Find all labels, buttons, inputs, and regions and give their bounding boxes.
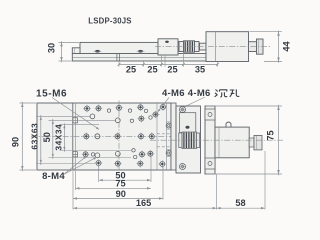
leader 15-M6 [52, 98, 99, 130]
leader 4-M6 [158, 98, 169, 112]
drive axis centerline (plan) [150, 139, 283, 141]
motor body (plan) [215, 127, 249, 158]
coupling plan left ring [179, 133, 182, 148]
dim 75 right [207, 105, 283, 107]
bottom dim 90 [72, 171, 74, 210]
table side screw 2 [138, 50, 143, 53]
holes row 4 [83, 152, 88, 157]
hidden leadscrew lines [157, 133, 181, 135]
bottom dim 58 [264, 151, 266, 210]
svg-text:34X34: 34X34 [54, 124, 64, 151]
svg-text:35: 35 [195, 64, 205, 74]
bracket screw bottom [180, 164, 186, 170]
satellite holes row 1 [107, 109, 110, 112]
motor connector cap (plan) [254, 135, 262, 150]
base internal step line [72, 57, 206, 59]
svg-text:90: 90 [11, 137, 21, 147]
end block screw [165, 41, 169, 43]
table side screw 1 [95, 50, 100, 53]
CJK chen (sink) glyph [215, 90, 228, 97]
coupling plan right ring [197, 133, 200, 148]
bottom dim 165 [216, 175, 218, 210]
svg-text:90: 90 [116, 189, 126, 199]
motor connector neck (plan) [249, 138, 254, 147]
table right seam lines [156, 103, 158, 170]
left edge side-tap marks [73, 118, 78, 123]
base joint tick a [116, 54, 118, 61]
leader 8-M4 a [64, 158, 97, 175]
plan view main plate [37, 103, 171, 170]
motor connector neck [249, 42, 257, 52]
bracket pocket [180, 113, 196, 133]
svg-text:63X63: 63X63 [29, 123, 39, 150]
CJK kong (hole) glyph [230, 89, 240, 97]
svg-text:75: 75 [266, 130, 276, 140]
svg-text:25: 25 [126, 64, 136, 74]
coupling left ring [179, 42, 184, 52]
coupling right ring [195, 42, 200, 52]
motor flange line [215, 32, 217, 62]
svg-text:25: 25 [147, 64, 157, 74]
svg-text:15-M6: 15-M6 [36, 89, 67, 100]
holes row 5 [96, 161, 101, 166]
M6 holes row 1 [85, 106, 90, 111]
svg-text:44: 44 [282, 41, 292, 52]
base joint tick b [118, 54, 120, 61]
leader 8-M4 b [64, 157, 87, 175]
stepper motor body (side view) [206, 32, 249, 62]
holes row 2 [90, 114, 95, 119]
bottom dim chain 25 25 25 35 [119, 63, 218, 65]
svg-text:50: 50 [42, 132, 52, 142]
dim 44 right [250, 31, 283, 33]
mount plate top screw box [205, 109, 215, 120]
svg-text:4-M6 4-M6: 4-M6 4-M6 [162, 88, 211, 99]
stage base plate (side view) [72, 54, 206, 62]
motor cable mark [226, 122, 231, 127]
dim 30 left [59, 41, 80, 43]
holes center row [84, 134, 89, 139]
mount plate bottom screw box [205, 158, 215, 169]
table left seam lines [72, 103, 74, 170]
dim 63X63 [36, 115, 91, 117]
dim 34X34 [60, 124, 99, 126]
svg-text:30: 30 [47, 43, 57, 53]
moving table plate (side view) [80, 42, 158, 53]
plan horizontal centerline [31, 135, 172, 137]
motor pilot boss [200, 43, 207, 50]
coupling plan hatched [182, 132, 197, 149]
end bearing block (side view) [158, 39, 178, 55]
table left clamp tab [72, 48, 80, 54]
svg-text:8-M4: 8-M4 [42, 171, 65, 182]
bearing bracket (plan) [171, 103, 176, 170]
bracket screw top [180, 107, 186, 113]
motor mount plate (plan) [205, 106, 215, 174]
svg-text:75: 75 [115, 179, 125, 189]
svg-text:LSDP-30JS: LSDP-30JS [88, 17, 131, 26]
bottom dim 75 [74, 171, 76, 190]
bottom dim 50 [98, 166, 100, 182]
plan vertical centerline [118, 101, 120, 173]
side view centerline [155, 46, 270, 48]
flexible coupling (hatched) [184, 41, 195, 52]
dim 50 left [49, 119, 116, 121]
right strip screws [166, 121, 171, 123]
svg-text:165: 165 [136, 198, 151, 208]
svg-text:25: 25 [167, 64, 177, 74]
motor connector cap [257, 39, 264, 54]
dim 90 left [20, 102, 37, 104]
leader 4-M6 counterbore [185, 97, 206, 107]
svg-text:58: 58 [235, 198, 245, 208]
